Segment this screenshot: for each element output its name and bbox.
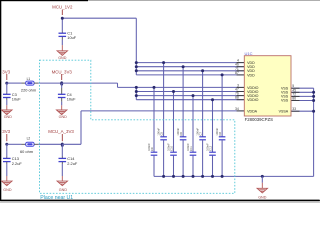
pin lead left	[237, 66, 245, 68]
wire MCU_1V2 horizontal	[62, 17, 136, 19]
wire C3 to GND	[6, 98, 8, 110]
power port MCU_A_3V3	[48, 129, 74, 141]
wire MCU_A_3V3 to C14	[61, 144, 63, 158]
svg-text:60 ohm: 60 ohm	[20, 149, 33, 154]
pin number 5	[292, 84, 294, 88]
inductor L2	[20, 137, 34, 154]
svg-text:2.2uF: 2.2uF	[12, 161, 23, 166]
node VDDIO drop junction	[211, 98, 214, 101]
ground GND under C4	[57, 110, 68, 119]
wire VDDIO drop to cap	[192, 96, 194, 152]
wire VDD drop to cap	[182, 67, 184, 137]
svg-text:100nF: 100nF	[167, 143, 171, 151]
wire VSS pin 86	[291, 100, 314, 102]
wire VSS pin 72	[291, 95, 314, 97]
node VSS bus junction	[312, 91, 315, 94]
node VDDIO bus junction	[135, 86, 138, 89]
wire MCU_1V2 to C1	[61, 18, 63, 33]
wire C10 to rail	[173, 155, 175, 176]
svg-text:VDDIO: VDDIO	[247, 98, 259, 102]
svg-text:L2: L2	[27, 137, 31, 141]
node VDD drop junction	[221, 73, 224, 76]
pin lead right	[291, 91, 300, 93]
node VDDIO bus junction	[135, 90, 138, 93]
wire VDD row pin 4	[136, 62, 244, 64]
svg-text:L1: L1	[27, 77, 31, 81]
wire VDD row pin 87	[136, 74, 244, 76]
wire L1 to MCU_3V3	[34, 82, 62, 84]
svg-text:GND: GND	[59, 188, 68, 192]
pin name VDD	[247, 73, 255, 77]
svg-text:100nF: 100nF	[157, 127, 161, 135]
ground GND under C14	[57, 181, 67, 192]
pin name VSS	[281, 91, 289, 95]
svg-text:100nF: 100nF	[147, 143, 151, 151]
pin number 4	[237, 59, 239, 63]
capacitor C11	[186, 143, 196, 155]
wire VDD bus vertical	[135, 18, 137, 75]
power port MCU_3V3	[52, 69, 73, 80]
svg-text:88: 88	[235, 96, 239, 100]
ground GND under C13	[2, 181, 12, 192]
svg-text:VDD: VDD	[247, 73, 255, 77]
wire C8 to rail	[221, 140, 223, 177]
op-amp U1C body	[244, 51, 291, 116]
pin lead right	[291, 110, 300, 112]
wire C5 to rail	[163, 140, 165, 177]
ground GND bottom	[257, 188, 267, 199]
wire VDDIO drop to cap	[212, 100, 214, 152]
svg-text:GND: GND	[59, 115, 68, 119]
label Place near U1	[40, 195, 73, 201]
svg-text:100nF: 100nF	[215, 127, 219, 135]
svg-text:100nF: 100nF	[186, 143, 190, 151]
svg-text:3V3: 3V3	[2, 129, 10, 134]
svg-text:100nF: 100nF	[176, 127, 180, 135]
pin lead left	[237, 62, 245, 64]
wire VDDIO row pin 88	[136, 99, 244, 101]
node VDD drop junction	[162, 61, 165, 64]
pin lead left	[237, 95, 245, 97]
svg-text:U1C: U1C	[245, 51, 253, 56]
wire C9 to rail	[153, 155, 155, 176]
pin lead left	[237, 70, 245, 72]
wire VSS bus vertical	[313, 88, 315, 176]
wire C13 to GND	[6, 162, 8, 181]
svg-text:GND: GND	[58, 56, 67, 60]
wire 3V3 to C3	[6, 83, 8, 94]
border frame top	[0, 0, 320, 1]
pin number 71	[235, 67, 239, 71]
svg-text:Place near U1: Place near U1	[40, 195, 73, 201]
capacitor C12	[206, 143, 216, 155]
node VSS bus junction	[312, 95, 315, 98]
wire MCU_A_3V3 to C13	[6, 144, 8, 158]
capacitor C14	[59, 156, 78, 166]
pin number 76	[235, 92, 239, 96]
pin lead right	[291, 100, 300, 102]
wire rail to GND	[261, 176, 263, 188]
wire VDD drop to cap	[221, 75, 223, 137]
capacitor C4	[58, 92, 76, 102]
pin lead left	[237, 99, 245, 101]
node 3V3 lower junction	[5, 143, 8, 146]
capacitor C13	[3, 156, 22, 166]
svg-text:87: 87	[235, 71, 239, 75]
pin name VDD	[247, 65, 255, 69]
node VDD drop junction	[201, 69, 204, 72]
node MCU_A_3V3 junction	[61, 143, 64, 147]
wire C4 to GND	[61, 98, 63, 110]
pin number 86	[292, 97, 296, 101]
svg-text:3V3: 3V3	[2, 69, 10, 74]
node rail junction	[261, 175, 264, 178]
wire VDDIO drop to cap	[153, 87, 155, 152]
svg-text:34: 34	[235, 107, 239, 111]
node VSS bus junction	[312, 99, 315, 102]
capacitor C10	[167, 143, 177, 155]
power port MCU_1V2	[52, 5, 73, 15]
wire C1 to GND	[61, 37, 63, 51]
node VSSA bus junction	[312, 110, 315, 113]
node rail junction	[162, 175, 165, 178]
wire MCU_3V3 to C4	[61, 83, 63, 94]
wire C14 to GND	[61, 162, 63, 181]
svg-text:100nF: 100nF	[206, 143, 210, 151]
capacitor C5	[157, 127, 167, 139]
svg-text:220 ohm: 220 ohm	[21, 87, 36, 92]
power port 3V3 upper	[2, 69, 10, 80]
svg-text:VSSA: VSSA	[279, 109, 289, 113]
node rail junction	[221, 175, 224, 178]
pin name VDD	[247, 69, 255, 73]
pin number 72	[292, 92, 296, 96]
svg-text:F280039CPZS: F280039CPZS	[245, 117, 274, 122]
wire ground rail	[154, 175, 314, 177]
node 3V3 upper junction	[5, 82, 8, 85]
wire 3V3 to L2	[7, 143, 26, 145]
pin name VDDIO	[247, 90, 259, 94]
wire VDDIO row pin 47	[136, 91, 244, 93]
pin name VDDIO	[247, 94, 259, 98]
svg-text:MCU_1V2: MCU_1V2	[52, 5, 73, 10]
pin lead right	[291, 87, 300, 89]
wire VDD row pin 46	[136, 66, 244, 68]
wire C12 to rail	[212, 155, 214, 176]
pin name VSS	[281, 86, 289, 90]
svg-text:MCU_3V3: MCU_3V3	[52, 69, 73, 74]
pin name VDDIO	[247, 98, 259, 102]
node VDD bus junction	[135, 61, 138, 64]
wire L2 to MCU_A_3V3	[34, 143, 62, 145]
pin number 46	[235, 63, 239, 67]
wire C11 to rail	[192, 155, 194, 176]
node VDD drop junction	[182, 65, 185, 68]
svg-text:2.2uF: 2.2uF	[67, 161, 78, 166]
node rail junction	[211, 175, 214, 178]
wire C6 to rail	[182, 140, 184, 177]
capacitor C1	[59, 31, 77, 41]
wire VDD drop to cap	[202, 71, 204, 137]
wire VDD drop to cap	[163, 63, 165, 137]
node rail junction	[172, 175, 175, 178]
svg-text:33: 33	[292, 107, 296, 111]
wire 3V3 to L1	[7, 82, 26, 84]
pin name VDD	[247, 61, 255, 65]
wire VDDIO bus vertical	[135, 87, 137, 99]
pin number 34	[235, 107, 239, 111]
node VDD bus junction	[135, 65, 138, 68]
pin name VDDA	[247, 109, 258, 113]
wire VDDIO row pin 3	[136, 86, 244, 88]
pin number 88	[235, 96, 239, 100]
border frame bottom	[0, 200, 320, 203]
pin name VSS	[281, 95, 289, 99]
pin lead right	[291, 95, 300, 97]
wire VDD row pin 71	[136, 70, 244, 72]
value label F280039CPZS	[245, 117, 274, 122]
svg-text:10uF: 10uF	[67, 35, 76, 40]
wire MCU_3V3 feed step	[62, 83, 137, 87]
node MCU_1V2 junction	[61, 17, 64, 20]
pin lead left	[237, 110, 245, 112]
pin number 3	[237, 83, 239, 87]
node rail junction	[201, 175, 204, 178]
wire VDDIO row pin 76	[136, 95, 244, 97]
wire C7 to rail	[202, 140, 204, 177]
inductor L1	[21, 77, 36, 92]
wire VDDIO drop to cap	[173, 92, 175, 153]
node VDDIO drop junction	[172, 90, 175, 93]
ground GND under C1	[57, 51, 67, 60]
svg-text:GND: GND	[258, 195, 267, 199]
wire VDDA row pin 34	[81, 110, 244, 112]
svg-text:10uF: 10uF	[67, 97, 76, 102]
power port 3V3 lower	[2, 129, 10, 141]
svg-text:GND: GND	[4, 115, 13, 119]
svg-text:10uF: 10uF	[12, 97, 21, 102]
wire VSS pin 45	[291, 91, 314, 93]
pin lead left	[237, 86, 245, 88]
wire VSS pin 5	[291, 87, 314, 89]
svg-text:MCU_A_3V3: MCU_A_3V3	[48, 129, 74, 134]
pin lead left	[237, 91, 245, 93]
capacitor C3	[3, 92, 21, 102]
capacitor C6	[176, 127, 186, 139]
pin number 87	[235, 71, 239, 75]
capacitor C7	[196, 127, 206, 139]
wire VSSA pin 33	[291, 110, 314, 112]
placement outline Place near U1	[40, 60, 235, 193]
pin name VSS	[281, 99, 289, 103]
wire MCU_A_3V3 riser	[62, 111, 81, 144]
capacitor C8	[215, 127, 225, 139]
svg-text:100nF: 100nF	[196, 127, 200, 135]
node VDDIO bus junction	[135, 94, 138, 97]
node rail junction	[192, 175, 195, 178]
pin lead left	[237, 74, 245, 76]
svg-text:VSS: VSS	[281, 99, 289, 103]
node VDDIO drop junction	[192, 94, 195, 97]
svg-text:GND: GND	[3, 188, 12, 192]
node rail junction	[182, 175, 185, 178]
pin number 45	[292, 88, 296, 92]
ground GND under C3	[2, 110, 13, 119]
node VDD bus junction	[135, 69, 138, 72]
pin name VSSA	[279, 109, 289, 113]
node VDDIO drop junction	[153, 86, 156, 89]
node MCU_3V3 junction	[60, 81, 63, 85]
pin number 33	[292, 107, 296, 111]
svg-text:VDDA: VDDA	[247, 109, 258, 113]
svg-text:86: 86	[292, 97, 296, 101]
pin name VDDIO	[247, 86, 259, 90]
capacitor C9	[147, 143, 157, 155]
border frame left	[0, 0, 1, 201]
pin number 47	[235, 88, 239, 92]
